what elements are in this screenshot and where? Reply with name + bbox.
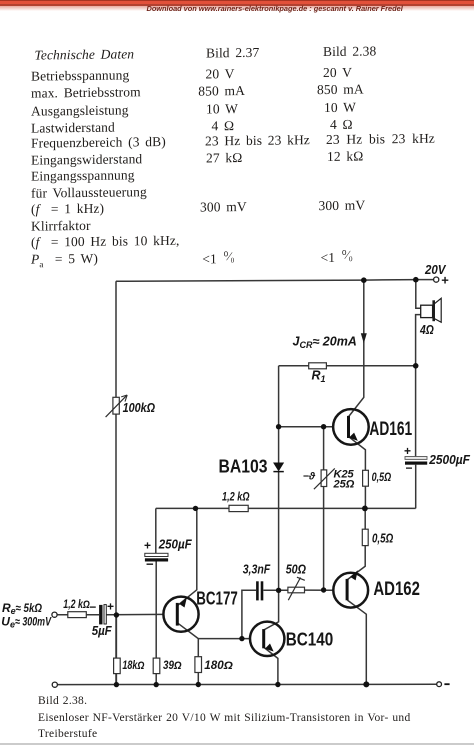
svg-text:AD161: AD161 [369,419,412,440]
junction input node 5uF / 18k / BC177 base [114,612,119,617]
capacitor 5uF input [99,605,106,625]
resistor 50 ohm trimmer body [288,587,305,593]
wire BC140 emitter to rail [264,647,278,684]
resistor 1,2k mid body [229,505,248,511]
junction 0,5 ohm resistors / output node line [362,506,368,512]
svg-text:−: − [406,461,413,475]
svg-text:R1: R1 [312,369,326,385]
wire AD161 base line [279,426,334,428]
transistor BC177 [163,597,198,632]
transistor AD162 [333,570,368,607]
svg-text:BC177: BC177 [196,588,238,608]
wire 3,3nF branch up [242,590,256,638]
junction BA103 column / AD161 base line [276,424,281,429]
junction BA103 column / BC140 collector / 3,3nF line [276,588,281,593]
transistor BC140 [250,622,284,656]
wire BC177 emitter column [178,508,197,605]
svg-text:50Ω: 50Ω [286,562,306,576]
junction ground rail / AD162 collector [363,681,369,687]
wire bottom ground rail [57,683,436,685]
wire 0,5 ohm to output node [364,486,366,508]
header red banner [0,0,474,4]
resistor K25 25ohm trimmer body [321,470,327,487]
trimmer 50 ohm diagonal with slot bar [288,577,305,600]
junction ground rail / 39 ohm [154,682,159,687]
svg-text:AD162: AD162 [373,579,420,600]
terminal ground right minus [437,682,442,687]
wire 50 ohm to AD162 base [305,589,334,591]
terminal ground left [52,682,57,687]
terminal 20V plus [434,277,439,282]
wire right column below 2500uF [415,465,417,509]
wire AD162 emitter up to 0,5 ohm [347,546,365,580]
svg-text:+: + [107,599,114,613]
wire 0,5 ohm #2 to output node [364,508,366,529]
junction K25 column / AD162 base line [321,587,326,592]
caption [38,695,87,707]
svg-text:BA103: BA103 [219,457,268,477]
resistor 0,5 ohm AD162 body [362,529,368,545]
wire 3,3nF to 50 ohm [263,589,288,591]
junction supply rail / AD161 collector column [361,277,367,283]
resistor 1,2k input body [68,612,87,618]
svg-text:−: − [89,600,96,614]
svg-text:250µF: 250µF [158,537,192,551]
resistor 180 ohm body [195,657,202,673]
header text [147,4,403,13]
svg-text:−: − [146,557,154,572]
diode BA103 [273,463,283,472]
wire BA103 column [278,366,280,463]
wire BC177 to BC140 base [198,638,251,640]
svg-text:18kΩ: 18kΩ [122,660,144,672]
svg-text:≈ 300mV: ≈ 300mV [15,615,52,629]
wire 250uF branch [155,508,157,553]
svg-text:≈ 5kΩ: ≈ 5kΩ [16,601,43,615]
wire speaker column lower [416,315,421,457]
wire K25 trimmer column [323,427,325,470]
wire AD161 emitter to 0,5 ohm [349,437,366,471]
capacitor 2500uF [405,457,427,465]
wire AD162 collector to rail [347,600,366,684]
svg-text:JCR≈ 20mA: JCR≈ 20mA [293,334,357,350]
wire input terminal to resistor [57,614,99,616]
junction 3,3nF branch / BC140 base line [239,636,244,641]
schematic text labels [1,262,471,672]
junction ground rail / BC140 emitter [275,682,280,687]
svg-text:5µF: 5µF [92,624,112,638]
junction ground rail / 18k [114,682,119,687]
svg-text:+: + [404,444,411,458]
wire top supply rail [116,280,416,282]
wire 180 ohm to rail [197,673,199,685]
wire top terminal stub [418,279,434,281]
svg-text:−ϑ: −ϑ [303,471,316,483]
wire BC177 collector down [178,623,199,657]
svg-text:2500µF: 2500µF [428,452,471,467]
svg-text:+: + [441,272,449,287]
wire output node line [156,507,416,509]
svg-text:39Ω: 39Ω [163,660,182,672]
wire left column [115,281,117,684]
capacitor 3,3nF [256,581,263,600]
speaker 4 ohm [421,298,442,322]
resistor R1 body [309,363,327,369]
wire BC140 collector up [264,590,279,630]
svg-text:1,2 kΩ: 1,2 kΩ [63,599,90,611]
resistor 39 ohm body [153,658,160,674]
wire BC177 base [106,613,163,615]
transistor AD161 [333,409,369,445]
resistor 100k rheostat body [113,397,119,414]
svg-text:+: + [144,539,151,553]
current arrow J_CR [361,333,367,343]
resistor 18k body [114,658,121,674]
svg-text:4Ω: 4Ω [419,322,434,337]
trimmer K25 diagonal [314,468,335,489]
junction supply rail / speaker column [413,277,419,283]
svg-text:25Ω: 25Ω [333,478,355,490]
resistor 0,5 ohm AD161 body [363,470,369,486]
rheostat 100k diagonal arrow [106,395,128,417]
bottom gray rule [0,743,474,745]
junction ground rail / 180 ohm [196,682,201,687]
svg-text:BC140: BC140 [286,629,334,649]
wire J_CR vertical (AD161 collector) [349,280,364,416]
svg-text:180Ω: 180Ω [204,660,233,672]
svg-text:0,5Ω: 0,5Ω [372,470,392,484]
junction K25 column / AD161 base line [321,424,326,429]
svg-text:100kΩ: 100kΩ [123,400,156,415]
svg-text:0,5Ω: 0,5Ω [372,530,393,545]
svg-text:Ue: Ue [1,615,15,630]
junction R1 / speaker-capacitor column [413,363,419,369]
terminal input [52,612,57,617]
junction BC177 emitter / output node line [193,506,198,511]
technical data table [0,0,474,290]
svg-text:3,3nF: 3,3nF [243,562,271,576]
wire speaker column upper [416,280,421,309]
wire 18k column [115,615,117,658]
capacitor 250uF [145,553,168,561]
svg-text:1,2 kΩ: 1,2 kΩ [222,490,250,504]
wire R1 line [279,365,416,367]
wire 39 ohm to rail [155,674,157,685]
